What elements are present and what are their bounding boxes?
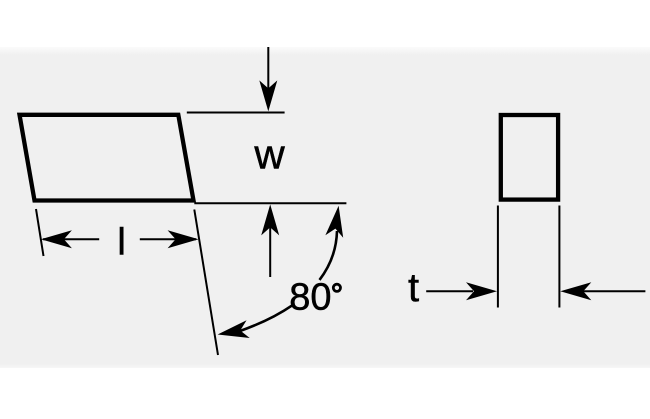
dimension w upper leader line	[267, 47, 269, 92]
insert top view (parallelogram outline)	[20, 115, 194, 201]
dimension w lower leader line	[269, 225, 271, 277]
80 degree arc arrowhead upper (up)	[325, 205, 347, 238]
svg-text:80: 80	[289, 277, 331, 319]
dimension t leader line right	[583, 290, 645, 292]
extension line (slanted, below insert bottom-left corner)	[36, 209, 44, 256]
dimension t arrowhead left (points right)	[466, 282, 497, 300]
label degree symbol	[333, 284, 340, 291]
dimension l leader line right segment	[140, 238, 196, 240]
dimension w upper arrowhead (down)	[259, 80, 277, 111]
svg-text:w: w	[253, 131, 285, 178]
80 degree angle arc (lower segment)	[240, 305, 292, 331]
dimension l arrowhead right	[168, 230, 199, 248]
extension line (vertical, below side view right edge)	[558, 206, 560, 308]
insert side view (rectangle outline)	[501, 115, 558, 200]
80 degree arc arrowhead lower (left)	[216, 320, 250, 343]
extension line (slanted, continuation of insert right edge)	[194, 210, 218, 356]
svg-text:l: l	[117, 221, 125, 263]
extension line (vertical, below side view left edge)	[497, 206, 499, 308]
dimension w upper extension line	[187, 112, 285, 114]
dimension w lower arrowhead (up)	[261, 204, 279, 235]
dimension l leader line left segment	[43, 238, 99, 240]
80 degree angle arc (upper segment)	[320, 231, 338, 280]
dimension w lower extension line	[194, 202, 346, 204]
dimension t arrowhead right (points left)	[560, 282, 591, 300]
dimension t leader line left	[426, 290, 473, 292]
svg-text:t: t	[408, 266, 419, 310]
gray background band	[0, 47, 650, 368]
dimension l arrowhead left	[41, 230, 72, 248]
